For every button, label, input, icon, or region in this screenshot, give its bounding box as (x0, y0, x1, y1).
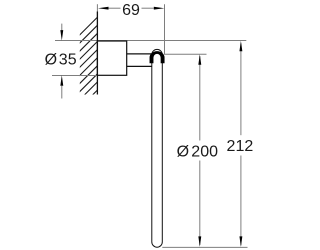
svg-text:200: 200 (191, 144, 218, 161)
svg-text:69: 69 (122, 2, 140, 19)
svg-text:212: 212 (227, 138, 254, 155)
svg-text:Ø: Ø (45, 52, 57, 69)
svg-text:35: 35 (59, 52, 77, 69)
svg-text:Ø: Ø (177, 144, 189, 161)
